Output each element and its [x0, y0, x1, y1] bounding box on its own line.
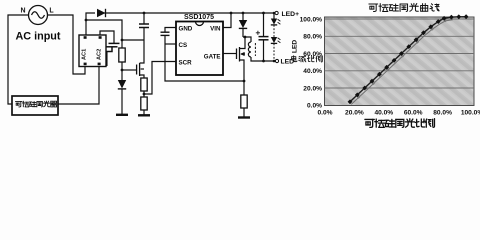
resistor R3: [141, 97, 147, 115]
node rail-c2: [143, 12, 146, 15]
ground g1: [116, 114, 128, 116]
chart title 可控硅调光曲线: [369, 4, 378, 11]
svg-text:SSD1075: SSD1075: [184, 14, 214, 21]
mosfet Q2: [137, 40, 144, 78]
wire bridge-cap: [100, 31, 114, 43]
svg-text:N: N: [20, 8, 25, 15]
chart gridlines: [325, 19, 475, 88]
svg-text:GND: GND: [179, 26, 193, 33]
wire ac-l: [48, 15, 86, 74]
bridge U2: [79, 35, 106, 67]
chart markers: [348, 14, 469, 104]
svg-text:40.0%: 40.0%: [303, 68, 322, 75]
terminal LED+: [275, 11, 299, 18]
node rail-led: [273, 12, 276, 15]
zener D2: [118, 80, 126, 114]
wire led-dash2: [273, 43, 275, 61]
capacitor C3: [161, 32, 170, 35]
mosfet Q1: [237, 37, 246, 81]
rail VIN: [104, 12, 275, 14]
node bridge-top: [85, 19, 88, 22]
diode D3: [239, 13, 247, 37]
wire dimmer-out: [58, 66, 99, 104]
node rail-d3: [242, 12, 245, 15]
inductor L1: [248, 42, 255, 57]
resistor R1: [119, 40, 125, 80]
capacitor C1: [107, 43, 120, 66]
svg-text:AC1: AC1: [82, 49, 88, 60]
svg-text:20.0%: 20.0%: [345, 110, 364, 117]
chart series line2: [351, 20, 452, 105]
svg-text:0.0%: 0.0%: [317, 110, 332, 117]
chip U1 body: [176, 22, 223, 76]
svg-text:100.0%: 100.0%: [300, 16, 323, 23]
svg-text:SCR: SCR: [179, 60, 193, 67]
mosfet arrow: [240, 52, 244, 56]
terminal LED-: [275, 59, 296, 66]
capacitor C2: [139, 13, 149, 40]
chart x labels: [317, 110, 480, 117]
svg-text:CS: CS: [179, 42, 188, 49]
node div-b: [121, 69, 124, 72]
led DL2: [271, 37, 281, 43]
wire cs: [165, 43, 176, 45]
svg-text:LED: LED: [292, 40, 299, 53]
chart plot bg: [325, 17, 475, 106]
svg-text:100.0%: 100.0%: [461, 110, 480, 117]
node scr-tap: [143, 93, 146, 96]
chart y title 电流比例: [292, 56, 297, 62]
ground g3: [238, 116, 250, 118]
wire vin: [223, 13, 231, 28]
svg-text:LED+: LED+: [282, 11, 300, 18]
wire led-dash1: [273, 25, 275, 37]
wire sw-ind: [243, 37, 251, 42]
bridge pin marks: [84, 36, 102, 65]
svg-text:80.0%: 80.0%: [433, 110, 452, 117]
wire gate: [223, 53, 237, 55]
diode D1: [97, 9, 106, 17]
chart series line: [350, 17, 466, 102]
chart x title 可控硅调光比例: [365, 119, 374, 127]
led DL1: [271, 13, 281, 25]
wire led-return: [251, 57, 276, 61]
dimmer label 可控硅调光器: [15, 101, 21, 106]
resistor R5: [141, 78, 147, 97]
node sw: [244, 36, 247, 39]
svg-text:VIN: VIN: [210, 26, 221, 33]
svg-text:40.0%: 40.0%: [374, 110, 393, 117]
svg-text:L: L: [49, 8, 54, 15]
wire scr: [145, 62, 176, 95]
wire divider-link: [122, 39, 144, 41]
node ret-c4: [262, 60, 265, 63]
wire sense-feed: [86, 20, 122, 40]
wire q2-gate: [122, 69, 137, 71]
capacitor C4: [256, 13, 269, 61]
node src-gnd: [243, 80, 246, 83]
ground g2: [138, 114, 150, 116]
chart markers2: [357, 19, 447, 99]
svg-text:60.0%: 60.0%: [404, 110, 423, 117]
node rail-c4: [262, 12, 265, 15]
ac source: [29, 6, 48, 25]
chart y labels: [300, 16, 323, 109]
chip notch: [196, 22, 204, 26]
wire ac-n: [8, 15, 29, 104]
dimmer box: [12, 96, 58, 115]
node ret-led: [273, 60, 276, 63]
svg-text:80.0%: 80.0%: [303, 34, 322, 41]
svg-text:AC input: AC input: [16, 31, 61, 43]
wire gnd-bus: [165, 35, 244, 81]
resistor R4: [241, 81, 247, 117]
node vin-rail: [230, 12, 233, 15]
svg-text:AC2: AC2: [97, 49, 103, 60]
svg-text:20.0%: 20.0%: [303, 85, 322, 92]
node div-a: [121, 39, 124, 42]
wire gnd-pin: [165, 28, 176, 33]
wire bridge-plus: [86, 13, 95, 35]
svg-text:GATE: GATE: [204, 54, 221, 61]
